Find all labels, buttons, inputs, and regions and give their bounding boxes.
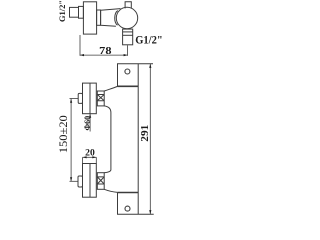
upper nipple block: [97, 91, 104, 106]
lower escutcheon: [83, 164, 97, 198]
inlet pipe stub: [70, 7, 79, 17]
valve body (side view): [101, 9, 121, 27]
mounting hole bottom: [125, 206, 130, 211]
temperature button on top of knob: [125, 2, 131, 9]
svg-text:150±20: 150±20: [56, 115, 70, 153]
dim 78 line: [80, 54, 128, 56]
upper escutcheon: [83, 83, 97, 114]
svg-text:291: 291: [140, 125, 151, 142]
upper nipple joint lines: [97, 95, 104, 101]
lower nipple cross hatch: [97, 177, 104, 184]
dim 20 arrow right: [92, 156, 96, 158]
lower escutcheon centerline: [89, 164, 91, 198]
inlet nut: [79, 6, 84, 18]
lower nipple block: [97, 173, 104, 190]
bar joint line top: [118, 85, 139, 87]
lower cap: [78, 176, 83, 187]
svg-text:20: 20: [85, 149, 95, 159]
upper cap: [78, 93, 82, 103]
dim 20 arrow left: [83, 156, 87, 158]
dim 150+-20 extension top: [70, 98, 79, 100]
flange arc behind knob: [115, 11, 118, 26]
knob circle (side view): [116, 7, 137, 28]
upper nipple cross hatch: [97, 95, 104, 101]
upper valve step curve top: [104, 86, 117, 91]
outlet pipe below knob: [123, 29, 133, 45]
connector between plate and body: [97, 10, 101, 25]
dim 78 extension left: [79, 35, 81, 56]
dim phi60 arrow: [89, 114, 91, 118]
svg-text:G1/2": G1/2": [57, 0, 67, 22]
lower nipple joint lines: [97, 177, 104, 184]
dim 150+-20 line: [70, 99, 72, 181]
dim 291 arrow top: [149, 64, 151, 68]
outlet joint line 1: [123, 31, 133, 33]
dim 20 line: [83, 156, 97, 158]
bar joint line bottom: [118, 192, 139, 194]
svg-text:G1/2": G1/2": [135, 35, 163, 47]
dim 150+-20 arrow bottom: [70, 177, 72, 181]
dim 291 arrow bottom: [149, 210, 151, 214]
dim 150+-20 extension bottom: [70, 180, 79, 182]
wall bar body (left edge hidden behind valve bodies between joints): [118, 64, 154, 215]
body waist outline between valves: [104, 106, 111, 173]
dim 78 arrow right: [124, 54, 128, 56]
dim 291 line: [149, 64, 151, 214]
upper escutcheon centerline: [89, 83, 91, 114]
dim 150+-20 arrow top: [70, 99, 72, 103]
dim 20 extension lines: [83, 157, 97, 163]
svg-text:Φ60: Φ60: [82, 116, 92, 131]
dim phi60 line: [89, 114, 91, 132]
wall plate (side view): [83, 2, 96, 34]
lower valve step curve bottom: [104, 189, 117, 192]
dim 78 extension right: [127, 45, 129, 56]
dim 78 arrow left: [80, 54, 84, 56]
svg-text:78: 78: [99, 46, 111, 57]
outlet joint line 2: [123, 34, 133, 36]
mounting hole top: [125, 69, 130, 74]
